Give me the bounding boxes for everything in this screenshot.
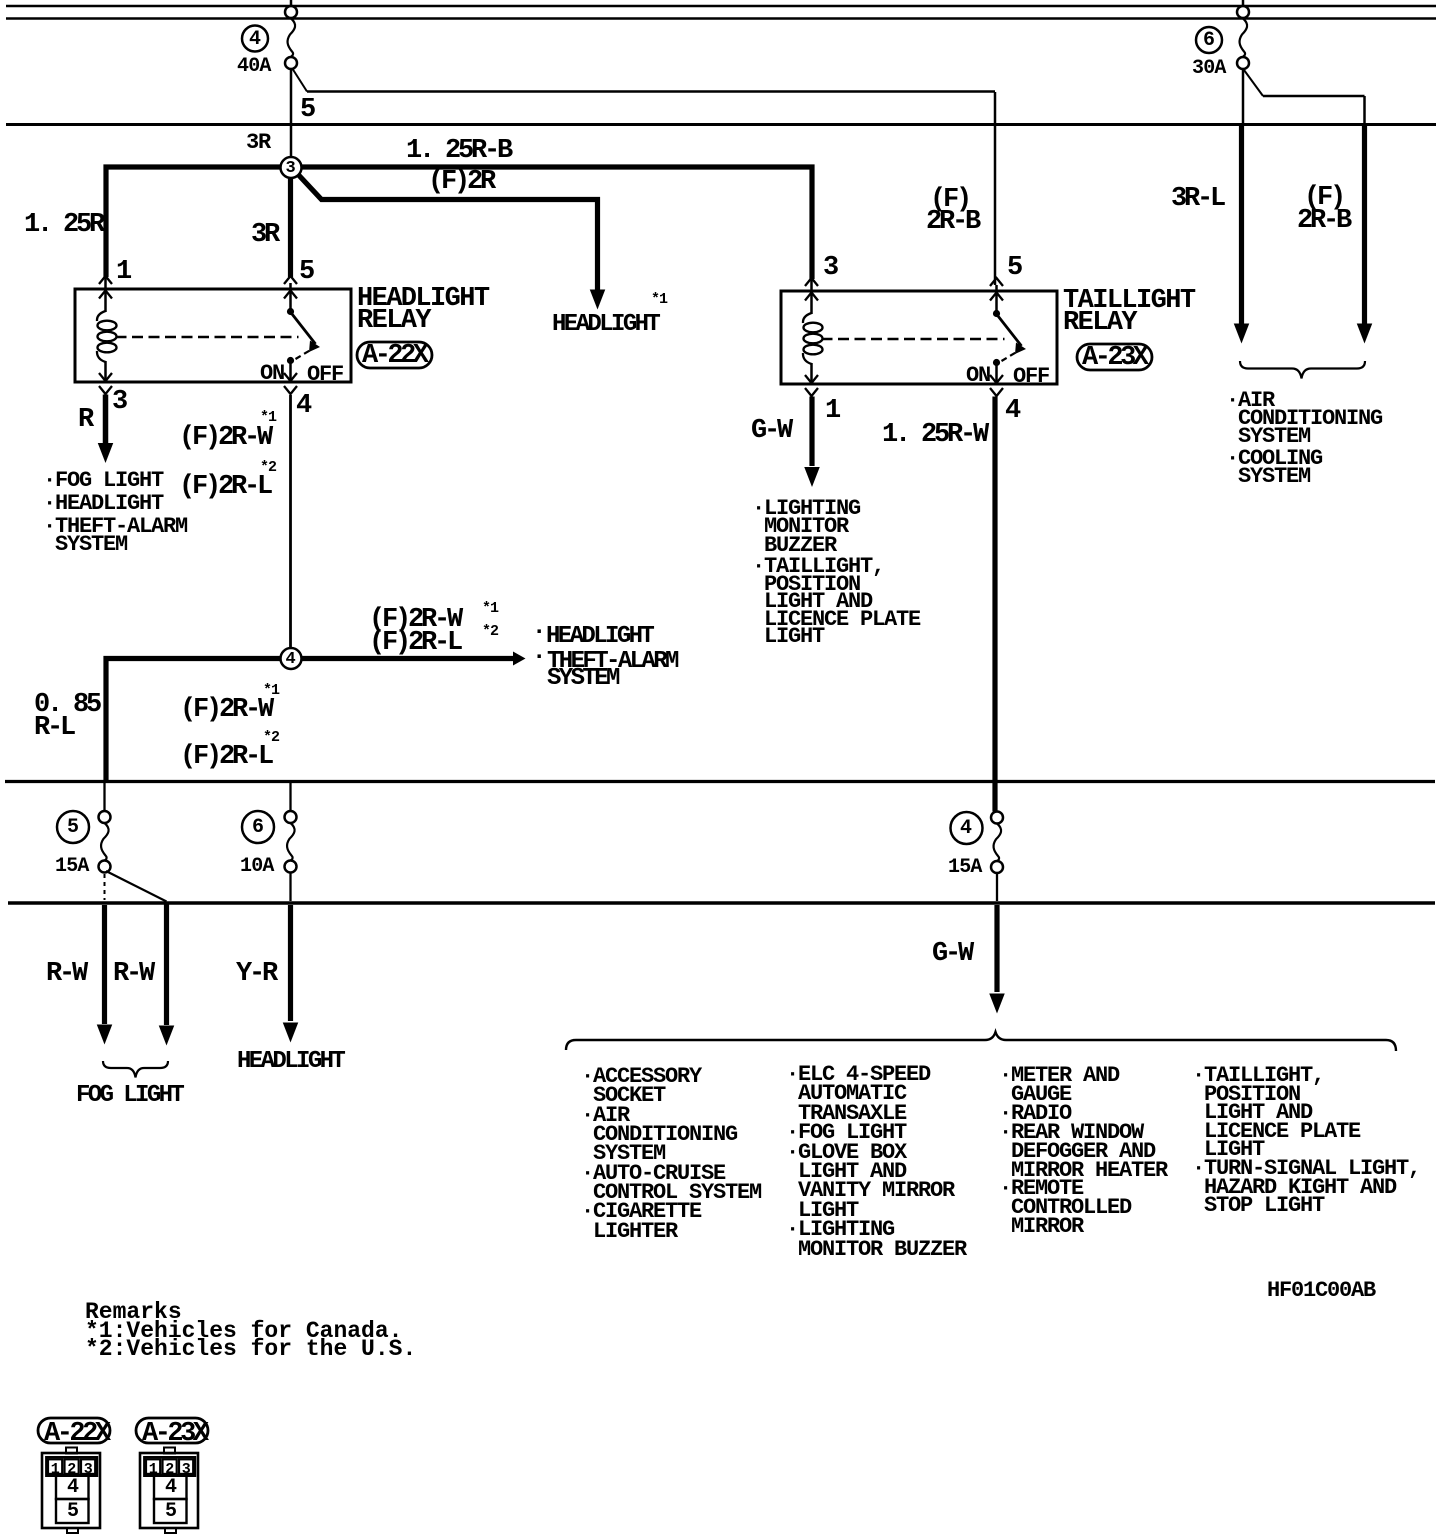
wire 1.25R-W: taillight pin 4 down to fuse 4 <box>992 397 997 812</box>
junction 3 number <box>286 159 296 179</box>
headlight relay pin 5 label <box>299 259 312 286</box>
superscript *2 (junction right) <box>482 624 498 639</box>
wire 3R-L: thick drop to A/C system <box>1239 126 1244 324</box>
superscript *2 (below junction) <box>263 730 279 745</box>
fuse 4 (15A) rating 15A <box>948 858 982 878</box>
wire R-W: fog light wire 2 <box>164 903 169 1025</box>
wire label G-W (pin 1) <box>751 418 790 445</box>
connector A-22X pinout cavity 4 <box>67 1478 78 1498</box>
wire: thin drop to bus line 3 <box>1363 96 1366 124</box>
wire R: headlight pin 3 to fog light etc <box>103 395 109 446</box>
fuse 4 rating 40A <box>237 57 271 77</box>
fuse 5 (15A) symbol <box>99 811 111 823</box>
node label 5 <box>300 97 313 124</box>
fuse 4 (40A) symbol <box>285 6 297 18</box>
destination list: taillight position licence plate light <box>752 558 920 646</box>
connector A-23X pinout <box>136 1418 208 1443</box>
wire label 3R-L <box>1171 186 1223 213</box>
destination list: fog light / headlight / theft-alarm <box>43 471 163 490</box>
wire label 1.25R-B <box>406 138 510 165</box>
arrowhead junction 4 right (to theft-alarm) <box>513 652 526 666</box>
fuse 4 id circle <box>242 26 268 52</box>
connector A-23X pinout cavity 5 <box>165 1502 176 1522</box>
wire: lead into fuse 5 <box>103 783 105 811</box>
wire label R-W (2) <box>113 961 152 988</box>
superscript *2 (pin 4 upper) <box>260 460 276 475</box>
wire: fuse 4 diagonal branch <box>292 68 307 92</box>
wire label (F)2R <box>428 169 493 196</box>
wire: horizontal bus line 5 (fuse block bottom) <box>8 901 1435 905</box>
target label HEADLIGHT *1 <box>552 313 658 337</box>
wire label 1.25R <box>24 212 102 239</box>
destination column 3: meter and gauge etc <box>999 1067 1167 1237</box>
arrowhead G-W taillight pin 1 <box>804 467 820 487</box>
brace: fog light group <box>103 1061 168 1078</box>
wire label (F) near taillight pin 5 <box>930 187 969 214</box>
wire label Y-R <box>236 961 275 988</box>
wire: headlight pin 4 down to junction 4 <box>289 395 292 649</box>
taillight relay A-23X connector code bubble <box>1077 344 1152 370</box>
wire label (F)2R-W (junction right) <box>369 607 460 634</box>
wire: fuse 6 down to bus line 3 <box>1242 69 1245 124</box>
wire label R-W (1) <box>46 961 85 988</box>
destination label FOG LIGHT <box>76 1084 182 1108</box>
arrowhead fog light wire 1 <box>97 1025 113 1045</box>
arrowhead fog light wire 2 <box>159 1026 175 1046</box>
headlight relay pin 1 label <box>116 259 129 286</box>
taillight relay A-23X title line 2 <box>1063 310 1136 337</box>
fuse 4 (15A) id circle <box>951 812 983 844</box>
wire Y-R: headlight wire <box>288 905 293 1021</box>
fuse 6 (10A) symbol <box>285 811 297 823</box>
wire label R-L <box>34 715 73 742</box>
wire label G-W (fuse 4 output) <box>932 941 971 968</box>
wire: lead into fuse 6 (10A) <box>289 783 291 811</box>
taillight relay pin 1 label <box>825 398 838 425</box>
wire label (F)2R-L (below junction) <box>180 744 271 771</box>
taillight relay pin 5 label <box>1007 255 1020 282</box>
taillight relay A-23X title line 1 <box>1063 288 1194 315</box>
headlight relay A-22X connector code bubble <box>357 342 432 368</box>
fuse 6 id number <box>1203 31 1214 51</box>
wire: horizontal bus line 4 (fuse block top) <box>5 780 1435 783</box>
destination label HEADLIGHT (bottom) <box>237 1050 343 1074</box>
connector A-22X pinout cavity 2 <box>67 1460 76 1480</box>
connector A-22X pinout cavity 1 <box>51 1460 60 1480</box>
wire: fuse 6 lower lead <box>289 873 291 901</box>
wire: horizontal branch to taillight relay pin 5 <box>307 90 995 93</box>
fuse 6 (10A) id number <box>252 818 263 838</box>
wire label (F)2R-W (pin 4 upper) <box>179 425 270 452</box>
destination list: headlight / theft-alarm system <box>532 621 544 645</box>
superscript *1 (junction right) <box>482 601 498 616</box>
wire R-W: fog light wire 1 <box>102 905 107 1024</box>
arrowhead 3R-L <box>1234 324 1250 344</box>
diagram code HF01C00AB <box>1267 1281 1375 1300</box>
wire: taillight relay pin 5 lead <box>994 92 997 285</box>
wire G-W: taillight pin 1 to lighting monitor <box>809 397 814 467</box>
fuse 4 (15A) symbol <box>991 812 1003 824</box>
wire: thick branch down-right to headlight (*1) <box>293 169 598 291</box>
headlight relay A-22X title line 2 <box>357 308 430 335</box>
fuse 4 (15A) id number <box>960 819 971 839</box>
arrowhead headlight wire <box>283 1023 299 1043</box>
junction node 4 <box>281 648 302 669</box>
connector A-23X pinout cavity 1 <box>149 1460 158 1480</box>
wire (F)2R-B: thick drop to cooling system <box>1362 126 1367 324</box>
taillight relay pin 3 label <box>823 255 836 282</box>
brace: taillight circuits group (large) <box>566 1032 1396 1051</box>
fuse 5 rating 15A <box>55 857 89 877</box>
taillight relay A-23X ON label <box>966 366 990 385</box>
destination list: air conditioning / cooling system <box>1226 392 1382 445</box>
wire 3R: junction 3 to headlight relay pin 5 <box>288 169 293 277</box>
wire label R <box>78 407 91 434</box>
arrowhead headlight *1 <box>590 290 606 310</box>
wire label 0.85 <box>34 692 99 719</box>
taillight relay A-23X OFF label <box>1013 367 1049 386</box>
wire: fuse 4 lower lead <box>996 874 998 901</box>
junction 4 number <box>286 650 296 670</box>
fuse 5 id circle <box>57 811 89 843</box>
wire: stub above fuse 6 <box>1242 0 1245 6</box>
wire: fuse 5 diagonal to second fog light wire <box>106 871 167 902</box>
connector A-22X pinout cavity 3 <box>84 1460 93 1480</box>
arrowhead taillight circuits wire <box>989 994 1005 1014</box>
wire: stub above fuse 4 <box>290 0 293 6</box>
taillight relay pin 4 label <box>1005 398 1018 425</box>
headlight relay pin 3 label <box>112 389 125 416</box>
destination column 4: taillight etc <box>1192 1067 1420 1216</box>
wire: fuse 5 dashed drop <box>104 874 106 900</box>
arrowhead R (pin 3) <box>98 443 114 463</box>
headlight relay A-22X title line 1 <box>357 286 488 313</box>
wire label 2R-B right column <box>1297 208 1349 235</box>
superscript *1 (headlight) <box>651 292 667 307</box>
connector A-23X pinout cavity 2 <box>165 1460 174 1480</box>
arrowhead (F)2R-B right <box>1357 324 1373 344</box>
connector A-23X pinout code label <box>142 1421 206 1448</box>
wire label 1.25R-W <box>882 422 986 449</box>
fuse 6 id circle <box>1196 27 1222 53</box>
wire G-W: taillight circuits wire <box>994 905 999 992</box>
wire: thick bus from headlight relay pin1 corner to taillight relay pin 3 <box>106 167 812 279</box>
taillight relay A-23X connector code <box>1082 345 1146 372</box>
headlight relay A-22X <box>75 289 351 382</box>
superscript *1 (below junction) <box>263 683 279 698</box>
fuse 6 rating 30A <box>1192 59 1226 79</box>
headlight relay A-22X ON label <box>260 364 284 383</box>
connector A-22X pinout code label <box>44 1421 108 1448</box>
wire: horizontal branch right <box>1263 95 1365 98</box>
wire: top horizontal bus line 1 <box>6 5 1436 8</box>
fuse 5 id number <box>67 818 78 838</box>
wire label (F)2R-W (below junction) <box>180 697 271 724</box>
headlight relay A-22X connector code <box>362 343 426 370</box>
superscript *1 (pin 4 upper) <box>260 410 276 425</box>
destination column 1: accessory socket etc <box>581 1067 761 1241</box>
destination list: lighting monitor buzzer <box>752 500 860 555</box>
wire label (F) right column <box>1304 185 1343 212</box>
wire: fuse 6 diagonal branch <box>1244 70 1263 96</box>
fuse 6 rating 10A <box>240 857 274 877</box>
wire: fuse 4 down to junction 3 <box>290 69 293 158</box>
wire: junction 4 corner to bus line 4 <box>106 659 513 782</box>
destination column 2: ELC transaxle etc <box>786 1065 966 1259</box>
headlight relay A-22X OFF label <box>307 365 343 384</box>
headlight relay pin 4 label <box>296 393 309 420</box>
wire label 2R-B near taillight pin 5 <box>926 209 978 236</box>
wire label (F)2R-L (junction right) <box>369 630 460 657</box>
remarks block <box>85 1303 416 1359</box>
connector A-23X pinout cavity 4 <box>165 1478 176 1498</box>
connector A-23X pinout cavity 3 <box>182 1460 191 1480</box>
connector A-22X pinout cavity 5 <box>67 1502 78 1522</box>
wire: horizontal bus line 3 <box>6 123 1436 126</box>
fuse 6 (30A) symbol <box>1237 6 1249 18</box>
connector A-22X pinout <box>38 1418 110 1443</box>
wire: top horizontal bus line 2 <box>6 17 1436 20</box>
fuse 6 (10A) id circle <box>242 811 274 843</box>
fuse 4 id number <box>249 30 260 50</box>
brace: air conditioning / cooling system group <box>1240 361 1365 379</box>
wire label 3R (pin 5 drop) <box>251 222 277 249</box>
wire label 3R (above junction 3) <box>246 133 270 152</box>
junction node 3 <box>281 157 302 178</box>
taillight relay A-23X <box>781 291 1057 384</box>
wire label (F)2R-L (pin 4 upper) <box>179 474 270 501</box>
